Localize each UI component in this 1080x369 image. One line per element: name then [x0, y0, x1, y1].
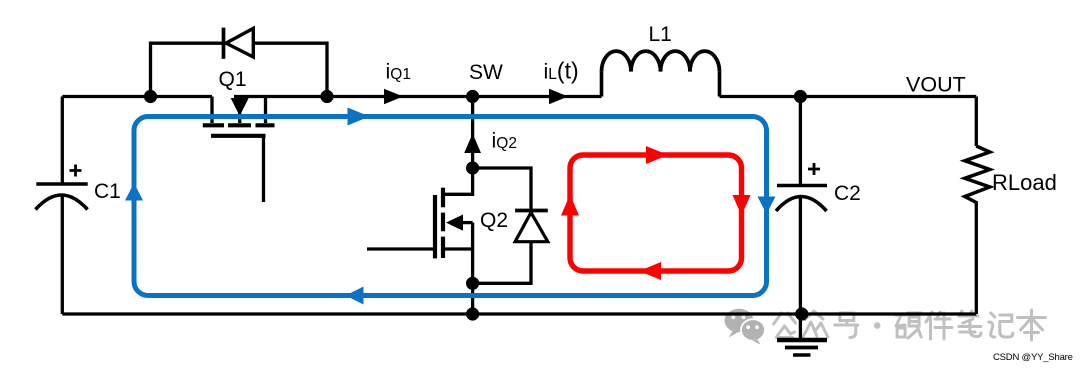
- svg-text:SW: SW: [469, 61, 503, 84]
- svg-text:C1: C1: [94, 180, 121, 203]
- svg-text:Q1: Q1: [219, 68, 247, 91]
- svg-text:C2: C2: [834, 182, 861, 205]
- svg-text:Q2: Q2: [480, 209, 508, 232]
- svg-text:L1: L1: [649, 23, 672, 46]
- svg-text:CSDN @YY_Share: CSDN @YY_Share: [993, 352, 1073, 363]
- svg-text:RLoad: RLoad: [992, 170, 1057, 195]
- svg-text:VOUT: VOUT: [906, 73, 966, 97]
